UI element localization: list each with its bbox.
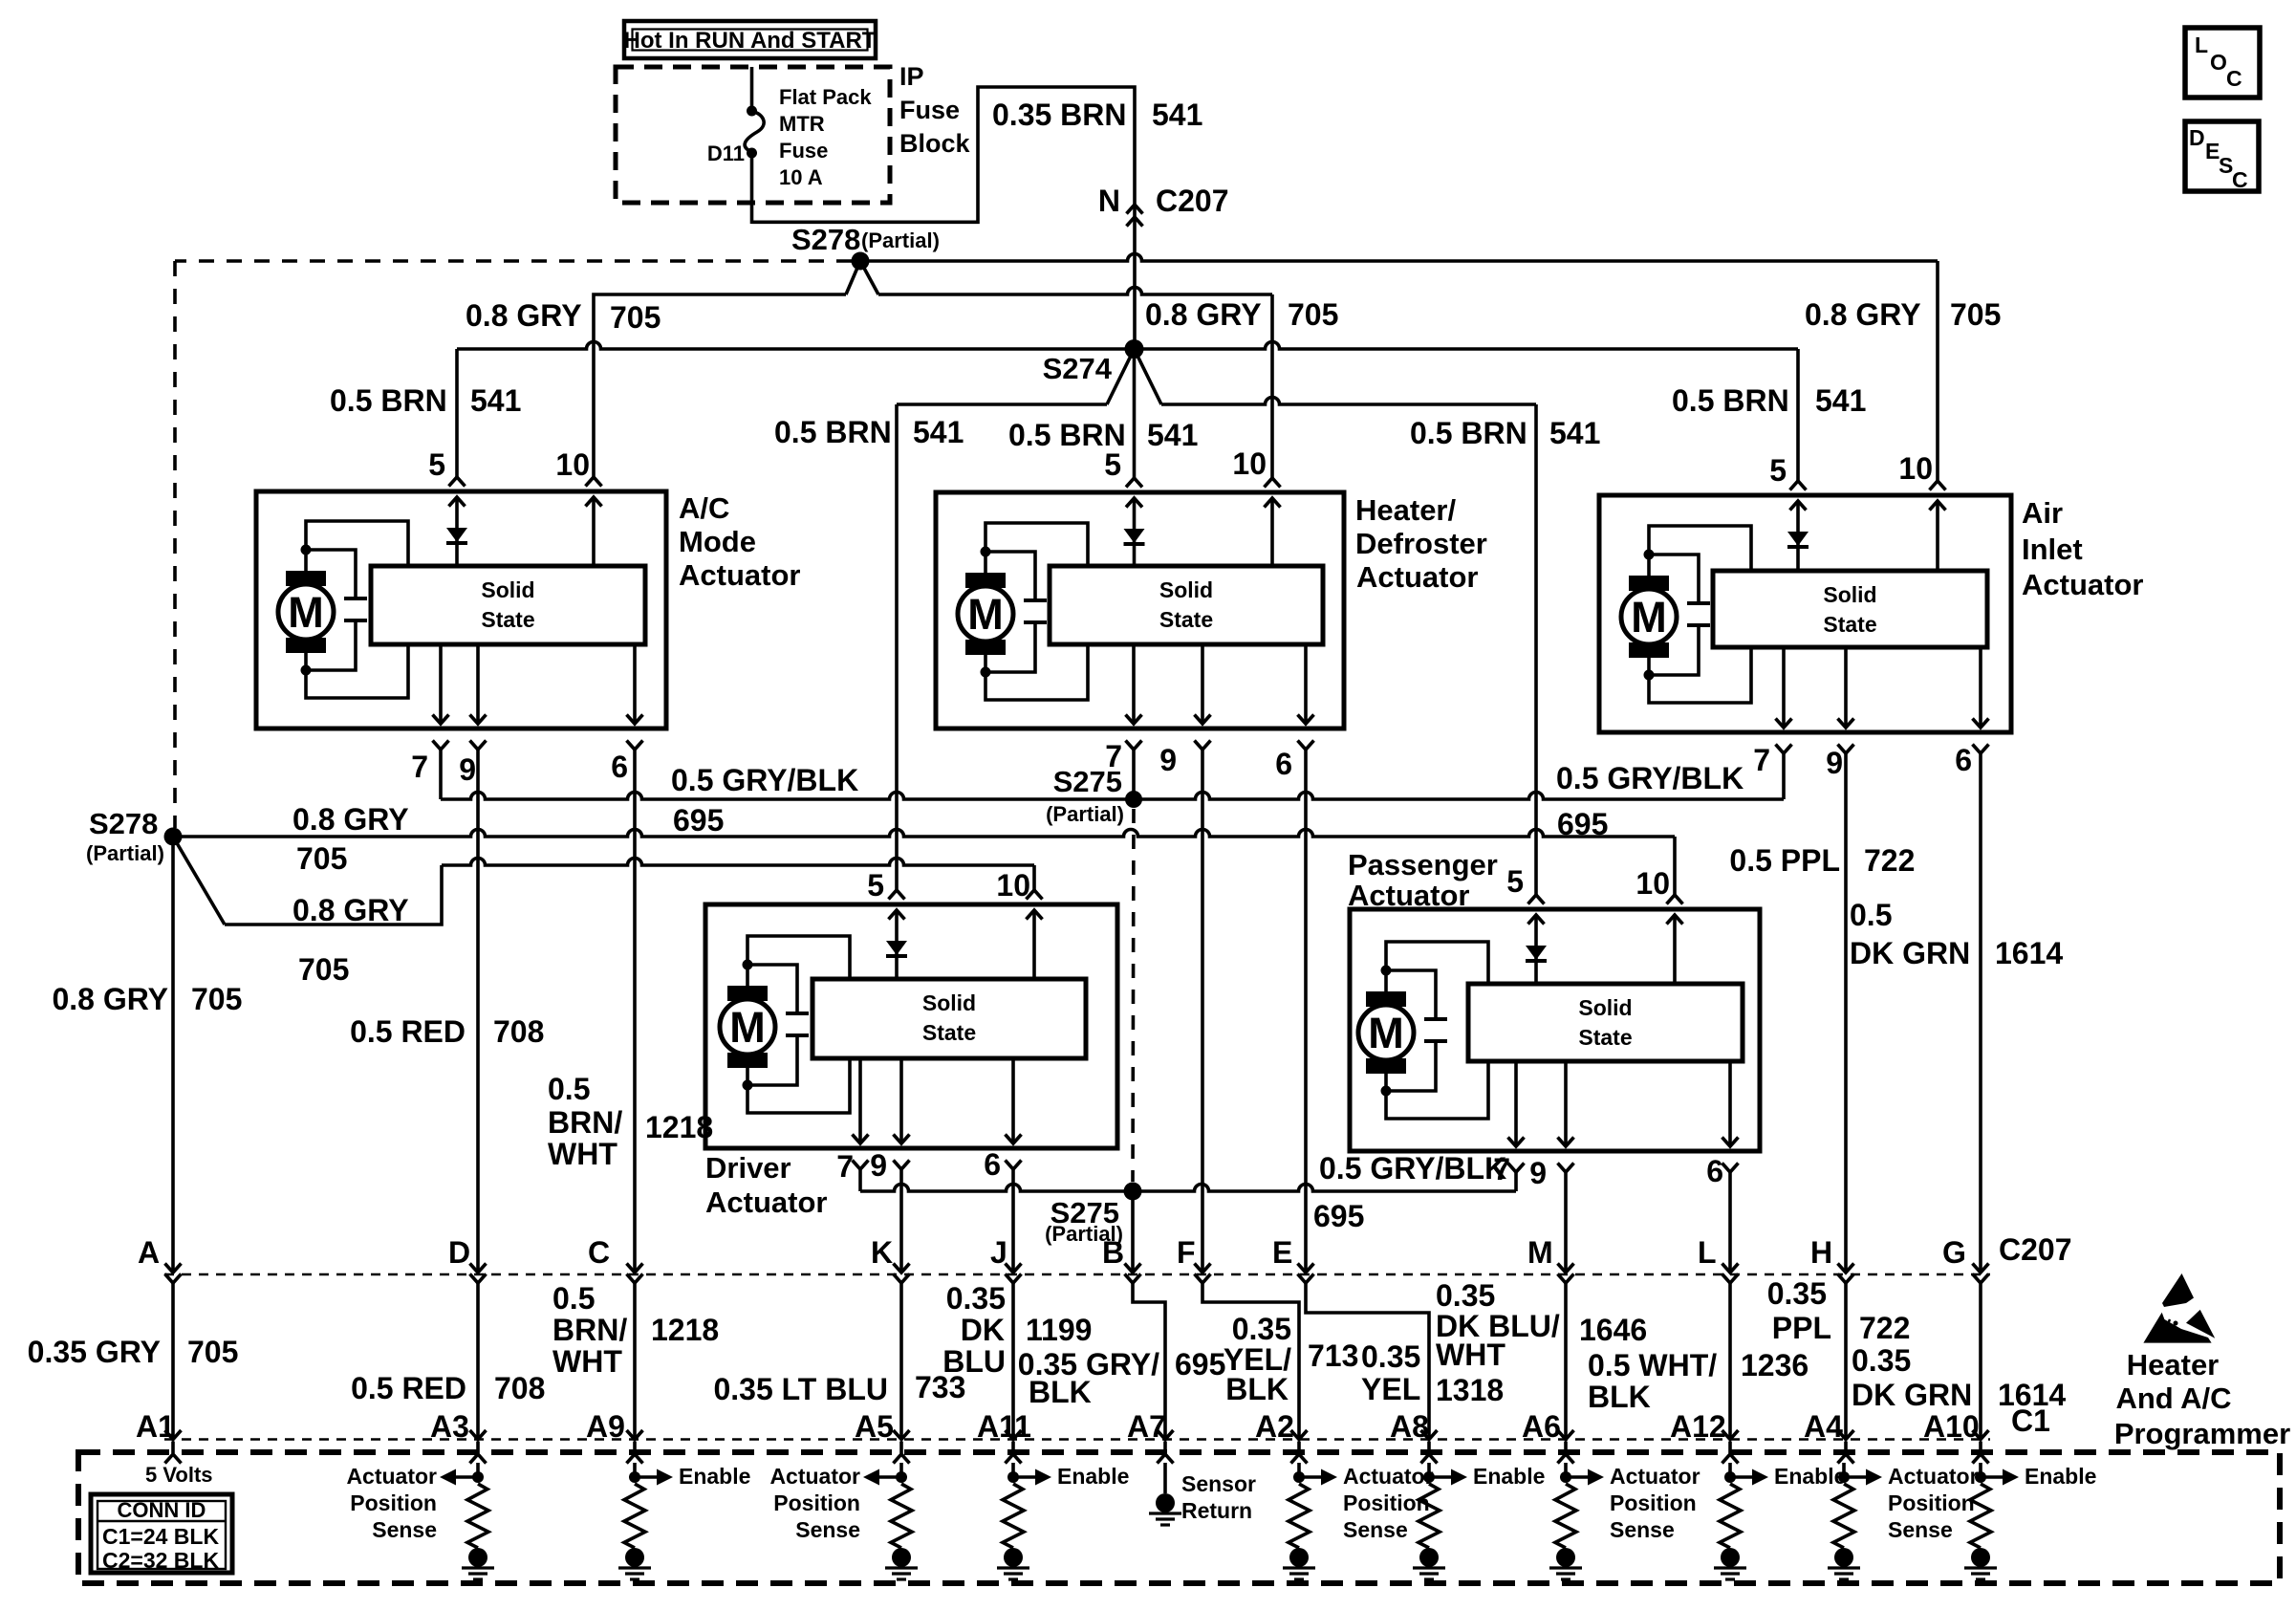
- fuse D11 Flat Pack MTR Fuse 10 A: [750, 67, 754, 109]
- svg-text:0.5 GRY/BLK: 0.5 GRY/BLK: [1319, 1151, 1506, 1186]
- splice S278 (top, partial): [852, 252, 870, 271]
- svg-text:BLU: BLU: [942, 1344, 1006, 1379]
- svg-text:10: 10: [1898, 451, 1933, 486]
- svg-text:Inlet: Inlet: [2022, 533, 2083, 566]
- svg-text:(Partial): (Partial): [861, 228, 940, 252]
- svg-text:BRN/: BRN/: [548, 1105, 622, 1140]
- bus 0.5 BRN 541 (y=423) right to Passenger pin 5: [1161, 398, 1536, 405]
- svg-text:Enable: Enable: [1057, 1464, 1129, 1489]
- svg-text:1614: 1614: [1998, 1378, 2066, 1412]
- svg-text:A2: A2: [1255, 1409, 1294, 1444]
- svg-text:D11: D11: [707, 141, 745, 165]
- svg-text:0.8 GRY: 0.8 GRY: [292, 802, 409, 837]
- svg-text:5: 5: [1769, 453, 1787, 488]
- svg-text:6: 6: [984, 1147, 1001, 1182]
- svg-text:State: State: [1823, 612, 1876, 637]
- Air Inlet pin 10 entry: [1930, 481, 1946, 490]
- svg-text:713: 713: [1308, 1338, 1358, 1373]
- svg-text:5 Volts: 5 Volts: [145, 1463, 213, 1487]
- svg-text:M: M: [1631, 593, 1667, 642]
- splice S278 (lower left, partial): [164, 828, 183, 846]
- svg-text:BRN/: BRN/: [552, 1313, 627, 1347]
- svg-text:(Partial): (Partial): [1046, 802, 1124, 826]
- svg-text:Return: Return: [1181, 1498, 1252, 1523]
- svg-text:BLK: BLK: [1588, 1380, 1651, 1414]
- A/C Mode pin 10 entry: [586, 477, 602, 487]
- svg-text:Solid: Solid: [481, 577, 534, 602]
- svg-text:Position: Position: [1343, 1490, 1430, 1515]
- svg-text:M: M: [1527, 1235, 1553, 1270]
- Heater/Defroster pin 5 entry with diode: [1126, 478, 1142, 488]
- A-pin column: Enable (arrow right) at x=1495: [1427, 1463, 1431, 1477]
- wire S278 down to programmer pin A (0.8 GRY 705): [171, 837, 175, 1273]
- svg-text:0.5 BRN: 0.5 BRN: [330, 383, 447, 418]
- A-pin column: Enable (arrow right) at x=664: [633, 1463, 637, 1477]
- svg-text:0.5 GRY/BLK: 0.5 GRY/BLK: [1556, 761, 1744, 795]
- svg-text:C207: C207: [1156, 184, 1229, 218]
- splice S275 (partial, on 695 bus): [1125, 791, 1142, 808]
- svg-text:7: 7: [836, 1149, 854, 1184]
- branch S278 to 0.8 GRY bus (y=905) to Driver pin 10: [173, 837, 225, 925]
- ESD sensitive symbol: [2143, 1273, 2215, 1343]
- svg-text:695: 695: [673, 803, 724, 838]
- svg-text:9: 9: [1529, 1156, 1547, 1190]
- svg-text:Actuator: Actuator: [346, 1464, 437, 1489]
- Air Inlet motor wiring and capacitor: [1644, 550, 1655, 560]
- svg-text:695: 695: [1313, 1199, 1364, 1233]
- svg-text:A11: A11: [977, 1409, 1031, 1444]
- svg-text:5: 5: [428, 447, 445, 482]
- svg-text:Hot In RUN And START: Hot In RUN And START: [624, 28, 877, 54]
- Driver bottom pins 7 9 6: [858, 1058, 862, 1143]
- svg-text:A: A: [138, 1235, 160, 1270]
- connector row C1 dashed line: [164, 1438, 1990, 1441]
- svg-text:BLK: BLK: [1029, 1375, 1092, 1409]
- svg-text:Sense: Sense: [1343, 1517, 1408, 1542]
- svg-text:705: 705: [187, 1335, 238, 1369]
- svg-text:Position: Position: [1610, 1490, 1697, 1515]
- Driver motor M: [727, 986, 768, 1001]
- svg-text:541: 541: [913, 415, 964, 449]
- svg-text:7: 7: [411, 750, 428, 784]
- Heater And A/C Programmer dashed box: [78, 1452, 2280, 1583]
- svg-text:A12: A12: [1670, 1409, 1726, 1444]
- A-pin column: Actuator Position Sense (arrow left) at x=500: [476, 1463, 480, 1477]
- svg-text:Solid: Solid: [1823, 582, 1876, 607]
- svg-text:G: G: [1942, 1235, 1966, 1270]
- svg-text:A6: A6: [1522, 1409, 1561, 1444]
- svg-text:S278: S278: [791, 223, 860, 256]
- svg-text:C: C: [2226, 66, 2242, 91]
- svg-text:705: 705: [191, 982, 242, 1016]
- wire B: S275 to A7 (jog): [1131, 1191, 1135, 1273]
- svg-text:(Partial): (Partial): [86, 841, 164, 865]
- svg-text:6: 6: [611, 750, 628, 784]
- svg-text:9: 9: [1826, 746, 1843, 780]
- Air Inlet bottom pins 7 9 6: [1782, 647, 1786, 728]
- wire A: S278 to A1: [165, 1264, 182, 1273]
- svg-text:L: L: [2195, 33, 2208, 57]
- svg-text:A/C: A/C: [679, 491, 729, 525]
- svg-text:541: 541: [1815, 383, 1866, 418]
- svg-text:BLK: BLK: [1225, 1372, 1289, 1406]
- svg-text:0.35: 0.35: [1232, 1312, 1291, 1346]
- Heater/Defroster actuator box: [936, 492, 1344, 729]
- Heater/Defroster solid state module: [1050, 566, 1323, 644]
- wire G: Air Inlet pin6 to A10: [1979, 753, 1982, 1273]
- svg-text:Position: Position: [350, 1490, 437, 1515]
- Air Inlet pin 5 entry with diode: [1790, 481, 1807, 490]
- bus 0.5 BRN 541 (y=423) left to Driver pin 5: [897, 402, 1107, 406]
- Passenger motor wiring and capacitor: [1381, 966, 1392, 976]
- svg-text:6: 6: [1275, 747, 1292, 781]
- svg-text:Actuator: Actuator: [1610, 1464, 1700, 1489]
- svg-text:L: L: [1698, 1235, 1717, 1270]
- svg-text:Mode: Mode: [679, 525, 756, 558]
- svg-text:695: 695: [1175, 1347, 1225, 1382]
- svg-text:0.5 BRN: 0.5 BRN: [1672, 383, 1789, 418]
- svg-text:A8: A8: [1390, 1409, 1429, 1444]
- svg-text:Position: Position: [773, 1490, 860, 1515]
- IP fuse block dashed box: [616, 67, 890, 203]
- svg-text:Driver: Driver: [705, 1151, 791, 1185]
- svg-text:DK GRN: DK GRN: [1852, 1378, 1972, 1412]
- A/C Mode motor wiring and capacitor: [301, 545, 312, 555]
- splice S275 (lower, partial): [1124, 1183, 1142, 1201]
- svg-text:Sense: Sense: [372, 1517, 437, 1542]
- svg-text:0.5 RED: 0.5 RED: [351, 1371, 466, 1405]
- svg-text:Solid: Solid: [922, 990, 976, 1015]
- svg-text:10 A: 10 A: [779, 165, 823, 189]
- svg-text:M: M: [967, 590, 1004, 639]
- A/C Mode motor M: [286, 571, 326, 586]
- svg-text:0.5 PPL: 0.5 PPL: [1729, 843, 1840, 878]
- svg-text:O: O: [2210, 50, 2227, 75]
- svg-text:Sense: Sense: [795, 1517, 860, 1542]
- Passenger motor M: [1366, 991, 1406, 1007]
- svg-text:CONN ID: CONN ID: [118, 1498, 206, 1522]
- svg-text:0.5 WHT/: 0.5 WHT/: [1588, 1348, 1717, 1382]
- A-pin column: Enable (arrow right) at x=1810: [1728, 1463, 1732, 1477]
- wire F: Htr/Def pin9 to A2 (jog): [1201, 750, 1204, 1273]
- svg-text:0.8 GRY: 0.8 GRY: [292, 893, 409, 927]
- svg-text:MTR: MTR: [779, 112, 825, 136]
- Driver motor wiring and capacitor: [743, 960, 753, 970]
- svg-text:A1: A1: [136, 1409, 175, 1444]
- svg-text:0.8 GRY: 0.8 GRY: [1805, 297, 1921, 332]
- svg-text:Enable: Enable: [1774, 1464, 1846, 1489]
- bus 0.8 GRY 705 (y=308) left branch to A/C pin 10: [594, 294, 846, 477]
- svg-text:Position: Position: [1888, 1490, 1975, 1515]
- wire L: Passenger pin6 to A12: [1728, 1172, 1732, 1273]
- CONN ID box: [91, 1494, 232, 1573]
- svg-text:0.35 BRN: 0.35 BRN: [992, 98, 1127, 132]
- svg-text:A5: A5: [855, 1409, 894, 1444]
- bus 0.5 GRY/BLK 695 (y=1246) Driver pin7 to Passenger pin7: [858, 1169, 862, 1191]
- Passenger bottom pins 7 9 6: [1514, 1061, 1518, 1146]
- Air Inlet actuator box: [1599, 495, 2011, 732]
- A/C Mode pin 5 entry with diode: [449, 477, 466, 487]
- A/C Mode bottom pins 7 9 6: [439, 644, 443, 724]
- svg-text:B: B: [1102, 1235, 1124, 1270]
- svg-text:WHT: WHT: [1436, 1338, 1505, 1372]
- Driver pin 5 entry with diode: [889, 890, 905, 900]
- svg-text:0.5 RED: 0.5 RED: [350, 1014, 466, 1049]
- svg-text:M: M: [1368, 1009, 1404, 1057]
- svg-text:Solid: Solid: [1578, 995, 1632, 1020]
- svg-text:722: 722: [1859, 1311, 1910, 1345]
- svg-text:705: 705: [1288, 297, 1338, 332]
- svg-text:1646: 1646: [1579, 1313, 1647, 1347]
- svg-text:C1=24 BLK: C1=24 BLK: [102, 1524, 219, 1549]
- svg-text:0.35: 0.35: [1361, 1339, 1420, 1374]
- svg-text:A3: A3: [430, 1409, 469, 1444]
- svg-text:1614: 1614: [1995, 936, 2063, 970]
- A-pin column: Enable (arrow right) at x=2072: [1979, 1463, 1982, 1477]
- svg-text:D: D: [448, 1235, 470, 1270]
- svg-text:1218: 1218: [651, 1313, 719, 1347]
- svg-text:State: State: [1578, 1025, 1632, 1050]
- wire E: Htr/Def pin6 to A8 (jog): [1304, 750, 1308, 1273]
- svg-text:0.35: 0.35: [946, 1281, 1006, 1316]
- svg-text:Enable: Enable: [2025, 1464, 2096, 1489]
- svg-text:DK GRN: DK GRN: [1850, 936, 1970, 970]
- svg-text:WHT: WHT: [548, 1137, 617, 1171]
- A/C Mode actuator box: [256, 491, 666, 729]
- S278 V branches to y=308 bus: [846, 261, 860, 294]
- svg-text:541: 541: [1152, 98, 1202, 132]
- svg-text:Actuator: Actuator: [769, 1464, 860, 1489]
- Passenger pin 10 entry: [1667, 895, 1683, 904]
- svg-text:10: 10: [996, 868, 1030, 903]
- wire Htr/Def pin 7 to S275: [1132, 750, 1136, 799]
- S274 V branches: [1107, 349, 1135, 404]
- svg-text:Sense: Sense: [1888, 1517, 1953, 1542]
- bus 0.8 GRY 705 (y=308) right branch to Htr/Def pin 10: [878, 288, 1272, 294]
- bus 0.8 GRY 705 (y=875) S278 to Passenger pin 10: [173, 830, 1675, 837]
- A-pin column: Actuator Position Sense (arrow right) at x=1359: [1297, 1463, 1301, 1477]
- svg-text:State: State: [922, 1020, 976, 1045]
- splice S274: [1125, 339, 1144, 359]
- svg-text:Sense: Sense: [1610, 1517, 1675, 1542]
- svg-text:5: 5: [1506, 864, 1524, 899]
- svg-text:Fuse: Fuse: [899, 96, 960, 124]
- svg-text:Defroster: Defroster: [1355, 527, 1487, 560]
- svg-text:A7: A7: [1127, 1409, 1166, 1444]
- A-pin column: Enable (arrow right) at x=1060: [1011, 1463, 1015, 1477]
- svg-text:C: C: [2232, 167, 2248, 192]
- svg-text:10: 10: [1635, 866, 1670, 901]
- svg-text:Passenger: Passenger: [1348, 848, 1498, 881]
- svg-text:Actuator: Actuator: [679, 558, 800, 592]
- svg-text:0.5: 0.5: [548, 1072, 590, 1106]
- A-pin column: Actuator Position Sense (arrow right) at x=1638: [1564, 1463, 1568, 1477]
- wire S274 to Htr/Def pin 5: [1133, 349, 1137, 478]
- Driver solid state module: [812, 979, 1086, 1058]
- svg-text:0.8 GRY: 0.8 GRY: [466, 298, 582, 333]
- Heater/Defroster motor wiring and capacitor: [981, 547, 991, 557]
- svg-text:0.35 GRY: 0.35 GRY: [28, 1335, 161, 1369]
- svg-text:705: 705: [610, 300, 661, 335]
- svg-text:Enable: Enable: [1473, 1464, 1545, 1489]
- svg-text:9: 9: [870, 1148, 887, 1183]
- svg-text:H: H: [1810, 1235, 1832, 1270]
- wire K: Driver pin9 to A5: [899, 1169, 903, 1273]
- dashed S275 splice continuation: [1133, 809, 1134, 1182]
- svg-text:0.35: 0.35: [1436, 1278, 1495, 1313]
- Heater/Defroster pin 10 entry: [1265, 478, 1281, 488]
- svg-text:708: 708: [494, 1371, 545, 1405]
- svg-text:0.35: 0.35: [1852, 1343, 1911, 1378]
- svg-text:C207: C207: [1999, 1232, 2072, 1267]
- svg-text:D: D: [2189, 125, 2205, 150]
- svg-text:Flat Pack: Flat Pack: [779, 85, 872, 109]
- svg-text:0.5 BRN: 0.5 BRN: [1410, 416, 1527, 450]
- svg-text:IP: IP: [899, 62, 924, 91]
- svg-text:A10: A10: [1923, 1409, 1980, 1444]
- svg-text:0.5: 0.5: [552, 1281, 595, 1316]
- svg-text:M: M: [729, 1003, 766, 1052]
- svg-text:0.8 GRY: 0.8 GRY: [52, 982, 168, 1016]
- bus 0.5 BRN 541 (y=365): [457, 342, 1798, 350]
- svg-text:1236: 1236: [1741, 1348, 1809, 1382]
- svg-text:10: 10: [555, 447, 590, 482]
- svg-text:C: C: [588, 1235, 610, 1270]
- svg-text:A4: A4: [1804, 1409, 1843, 1444]
- svg-text:E: E: [1272, 1235, 1292, 1270]
- dashed harness line from S278 to left edge: [175, 259, 852, 263]
- svg-text:705: 705: [298, 952, 349, 987]
- svg-text:0.5 GRY/BLK: 0.5 GRY/BLK: [671, 763, 858, 797]
- svg-text:541: 541: [1147, 418, 1198, 452]
- wire J: Driver pin6 to A11: [1011, 1169, 1015, 1273]
- svg-text:Actuator: Actuator: [1343, 1464, 1434, 1489]
- bus 0.5 GRY/BLK 695 (y=836): [439, 750, 443, 799]
- svg-text:S275: S275: [1053, 765, 1122, 798]
- A-pin column: Actuator Position Sense (arrow left) at x=943: [899, 1463, 903, 1477]
- svg-text:YEL: YEL: [1361, 1372, 1420, 1406]
- svg-text:1218: 1218: [645, 1110, 713, 1144]
- wire D: A/C pin9 to A3: [476, 750, 480, 1273]
- Passenger actuator box: [1350, 909, 1760, 1151]
- svg-text:S278: S278: [89, 807, 158, 840]
- svg-text:Actuator: Actuator: [1348, 879, 1469, 912]
- wire M: Passenger pin9 to A6: [1564, 1172, 1568, 1273]
- svg-text:Actuator: Actuator: [2022, 568, 2143, 601]
- svg-text:F: F: [1177, 1235, 1196, 1270]
- Driver actuator box: [705, 904, 1117, 1148]
- connector row C207 dashed line: [164, 1273, 1990, 1276]
- DESC reference box: [2185, 121, 2259, 191]
- svg-text:A9: A9: [586, 1409, 625, 1444]
- Air Inlet motor M: [1629, 576, 1669, 591]
- svg-text:10: 10: [1232, 446, 1267, 481]
- svg-text:541: 541: [1549, 416, 1600, 450]
- A-pin column: Sensor Return at x=1219: [1163, 1463, 1167, 1493]
- svg-text:State: State: [1159, 607, 1213, 632]
- svg-text:Programmer: Programmer: [2114, 1417, 2290, 1450]
- svg-text:0.5: 0.5: [1850, 898, 1892, 932]
- svg-text:M: M: [288, 588, 324, 637]
- svg-text:7: 7: [1753, 743, 1770, 777]
- wire fuse output to C207 pin N: [752, 87, 1136, 347]
- svg-text:Fuse: Fuse: [779, 139, 828, 163]
- wire H: Air Inlet pin9 to A4: [1844, 753, 1848, 1273]
- svg-text:5: 5: [867, 868, 884, 903]
- svg-text:705: 705: [296, 841, 347, 876]
- svg-text:Block: Block: [899, 129, 971, 158]
- svg-text:Air: Air: [2022, 496, 2063, 530]
- svg-text:Actuator: Actuator: [705, 1186, 827, 1219]
- svg-text:Enable: Enable: [679, 1464, 750, 1489]
- svg-text:6: 6: [1955, 743, 1972, 777]
- svg-text:K: K: [871, 1235, 893, 1270]
- Heater/Defroster motor M: [965, 573, 1006, 588]
- svg-text:0.35 LT BLU: 0.35 LT BLU: [713, 1372, 888, 1406]
- svg-text:5: 5: [1104, 447, 1121, 482]
- svg-text:WHT: WHT: [552, 1344, 622, 1379]
- Driver pin 10 entry: [1027, 890, 1043, 900]
- svg-text:PPL: PPL: [1772, 1311, 1831, 1345]
- svg-text:And A/C: And A/C: [2115, 1382, 2231, 1415]
- svg-text:722: 722: [1864, 843, 1915, 878]
- A-pin column: Actuator Position Sense (arrow right) at x=1929: [1842, 1463, 1846, 1477]
- svg-text:Heater: Heater: [2127, 1348, 2220, 1382]
- bus 0.8 GRY 705 (y=273) from S278 to air inlet pin 10: [860, 254, 1938, 262]
- svg-text:0.5 BRN: 0.5 BRN: [774, 415, 892, 449]
- Heater/Defroster bottom pins 7 9 6: [1132, 644, 1136, 724]
- fuse box label "Hot In RUN And START": [624, 21, 876, 58]
- svg-text:Actuator: Actuator: [1356, 560, 1478, 594]
- Passenger pin 5 entry with diode: [1528, 895, 1545, 904]
- svg-text:708: 708: [493, 1014, 544, 1049]
- svg-text:Solid: Solid: [1159, 577, 1213, 602]
- Air Inlet solid state module: [1713, 571, 1987, 647]
- svg-text:State: State: [481, 607, 534, 632]
- wire C: A/C pin6 to A9: [633, 750, 637, 1273]
- svg-text:9: 9: [459, 752, 476, 787]
- svg-text:541: 541: [470, 383, 521, 418]
- connector C207 pin N chevrons: [1127, 205, 1143, 214]
- svg-text:Actuator: Actuator: [1888, 1464, 1979, 1489]
- svg-text:C2=32 BLK: C2=32 BLK: [102, 1548, 219, 1573]
- svg-text:0.8 GRY: 0.8 GRY: [1145, 297, 1262, 332]
- svg-text:N: N: [1098, 184, 1120, 218]
- LOC reference box: [2185, 28, 2260, 98]
- svg-text:S274: S274: [1043, 352, 1113, 385]
- svg-text:705: 705: [1950, 297, 2001, 332]
- svg-text:J: J: [990, 1235, 1007, 1270]
- svg-text:Heater/: Heater/: [1355, 493, 1456, 527]
- svg-text:DK: DK: [961, 1313, 1005, 1347]
- svg-text:0.35: 0.35: [1767, 1276, 1827, 1311]
- svg-text:1199: 1199: [1026, 1313, 1092, 1347]
- svg-text:1318: 1318: [1436, 1373, 1504, 1407]
- svg-text:6: 6: [1706, 1154, 1723, 1188]
- svg-text:Sensor: Sensor: [1181, 1471, 1256, 1496]
- Passenger solid state module: [1468, 984, 1743, 1061]
- svg-text:9: 9: [1159, 743, 1177, 777]
- A/C Mode solid state module: [371, 566, 645, 644]
